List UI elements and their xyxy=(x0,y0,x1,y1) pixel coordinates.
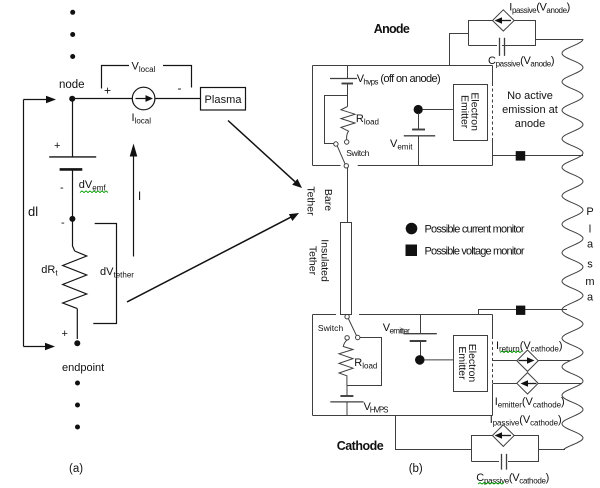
wire box to I_return diamond xyxy=(493,360,517,362)
svg-text:Ipassive(Vcathode): Ipassive(Vcathode) xyxy=(490,414,562,428)
svg-text:endpoint: endpoint xyxy=(62,362,104,374)
switch right contact xyxy=(345,140,349,144)
plasma wavy line xyxy=(562,39,583,450)
svg-text:-: - xyxy=(60,182,64,194)
Electron Emitter box cathode xyxy=(454,336,488,392)
cathode box right edge dashed xyxy=(492,336,494,384)
cathode box right edge solid bottom xyxy=(492,384,494,416)
resistor dR_t zigzag xyxy=(63,251,87,309)
cathode voltage monitor square xyxy=(516,306,525,315)
dl bottom arrow xyxy=(24,346,48,348)
svg-text:+: + xyxy=(104,84,111,98)
V_hvps battery stem xyxy=(347,66,349,79)
svg-text:(b): (b) xyxy=(409,463,423,475)
C_passive capacitor anode xyxy=(500,38,505,56)
svg-text:Insulated: Insulated xyxy=(319,239,331,282)
right bypass branch xyxy=(347,338,382,386)
tether bottom contact xyxy=(345,315,349,319)
legend voltage monitor square xyxy=(406,245,418,257)
I_return diamond xyxy=(517,350,538,371)
svg-text:+: + xyxy=(54,140,60,152)
squiggle under passive xyxy=(478,483,504,485)
anode box bottom edge right xyxy=(358,165,493,167)
battery dV_emf long plate xyxy=(49,156,96,158)
node2 junction dot xyxy=(69,216,75,222)
wire node2 to resistor xyxy=(73,221,75,251)
wire I_return diamond to plasma xyxy=(538,360,570,362)
V_HVPS stem to bottom xyxy=(346,402,348,416)
svg-text:Cathode: Cathode xyxy=(337,439,384,453)
cathode switch blade xyxy=(348,319,356,336)
cathode box top edge right xyxy=(359,314,493,316)
svg-text:VHVPS: VHVPS xyxy=(364,401,389,415)
V_emitter stem to dot xyxy=(420,341,422,356)
dl top arrow xyxy=(24,99,49,101)
svg-text:(a): (a) xyxy=(69,463,83,475)
loop to plasma wire xyxy=(539,449,566,451)
bare tether wire xyxy=(347,168,349,223)
V_emit short plate xyxy=(412,129,425,131)
node A junction dot xyxy=(69,96,75,102)
Plasma box xyxy=(201,88,246,111)
svg-text:Iemitter(Vcathode): Iemitter(Vcathode) xyxy=(495,396,565,410)
switch pole contact xyxy=(344,164,348,168)
svg-text:Tether: Tether xyxy=(305,186,317,216)
dots above node xyxy=(70,10,75,15)
battery dV_emf short plate xyxy=(60,168,83,171)
anode box right edge solid top xyxy=(492,66,494,84)
wire I_emitter diamond to plasma xyxy=(538,383,582,385)
svg-text:Vemit: Vemit xyxy=(390,138,413,152)
spellcheck squiggle under dV_emf xyxy=(80,191,108,193)
V_emitter long plate xyxy=(404,333,437,335)
wire node down to battery xyxy=(72,100,74,157)
svg-text:a: a xyxy=(587,239,594,251)
Electron Emitter box anode xyxy=(454,85,488,141)
riser from cathode box bottom xyxy=(396,416,472,450)
wire resistor to endpoint xyxy=(76,309,78,339)
svg-text:Possible current monitor: Possible current monitor xyxy=(425,224,525,236)
svg-text:Emitter: Emitter xyxy=(456,346,468,380)
loop to plasma wire xyxy=(536,39,584,41)
V_local bracket xyxy=(102,66,130,89)
anode box right edge dashed xyxy=(492,83,494,141)
V_HVPS short plate xyxy=(340,395,353,397)
svg-text:Switch: Switch xyxy=(346,148,369,158)
legend current monitor dot xyxy=(406,223,418,235)
anode voltage monitor square xyxy=(516,151,526,161)
V_emitter short plate xyxy=(410,340,427,342)
loop rectangle xyxy=(469,21,536,46)
stem battery to tee xyxy=(347,84,349,107)
wire current source to Plasma xyxy=(155,98,201,100)
cathode monitor wire riser xyxy=(479,310,568,315)
svg-text:l: l xyxy=(589,224,591,236)
cathode box right edge solid top xyxy=(492,315,494,337)
squiggle under return xyxy=(500,351,522,353)
svg-text:Plasma: Plasma xyxy=(205,94,243,106)
junction to battery stem xyxy=(346,386,348,397)
V_hvps long plate xyxy=(330,78,357,80)
svg-text:+: + xyxy=(62,328,68,340)
svg-text:Rload: Rload xyxy=(354,357,377,371)
left bypass branch xyxy=(325,96,348,144)
cathode box bottom edge xyxy=(313,415,493,417)
switch left contact xyxy=(345,336,349,340)
anode box top edge xyxy=(313,65,493,67)
switch blade xyxy=(337,146,345,164)
endpoint junction dot xyxy=(74,340,80,346)
svg-text:P: P xyxy=(586,206,593,218)
arrow tether circuit to insulated tether xyxy=(127,217,291,302)
V_emit stem to bottom xyxy=(418,136,420,166)
svg-text:node: node xyxy=(59,79,85,91)
R_load resistor cathode xyxy=(339,340,353,385)
arrow plasma to bare tether xyxy=(228,121,295,182)
wire node to current source xyxy=(73,98,133,100)
anode box left edge xyxy=(312,66,314,166)
anode box bottom edge left xyxy=(313,165,341,167)
anode box right edge solid bottom xyxy=(492,141,494,166)
svg-text:Cpassive(Vanode): Cpassive(Vanode) xyxy=(488,55,555,69)
svg-text:Ilocal: Ilocal xyxy=(132,112,152,126)
switch right contact xyxy=(356,335,360,339)
monitor dot anode xyxy=(414,105,423,114)
svg-text:Emitter: Emitter xyxy=(459,95,471,129)
svg-text:anode: anode xyxy=(515,118,546,130)
svg-text:Tether: Tether xyxy=(307,246,319,276)
I_passive diamond anode xyxy=(493,10,515,31)
V_emit stem xyxy=(418,113,420,130)
svg-text:Ipassive(Vanode): Ipassive(Vanode) xyxy=(509,2,570,16)
V_emitter stem top xyxy=(420,315,422,334)
dl bracket line xyxy=(23,100,25,347)
svg-text:Possible voltage monitor: Possible voltage monitor xyxy=(425,245,525,257)
svg-text:emission at: emission at xyxy=(502,104,558,116)
insulated tether rect xyxy=(341,223,352,315)
anode monitor wire xyxy=(493,155,584,157)
cathode box top edge left xyxy=(313,314,337,316)
wire battery to node2 xyxy=(72,169,74,219)
svg-text:dl: dl xyxy=(28,204,38,219)
svg-text:Anode: Anode xyxy=(374,22,410,36)
wire dot to emitter box xyxy=(423,109,454,111)
I_emitter diamond xyxy=(517,373,538,394)
svg-text:-: - xyxy=(61,217,65,229)
dots below endpoint xyxy=(75,381,80,386)
I_passive diamond cathode xyxy=(492,425,514,447)
V_emit long plate xyxy=(404,135,435,137)
cathode box left edge xyxy=(312,315,314,416)
monitor dot cathode xyxy=(415,355,425,365)
svg-text:dRt: dRt xyxy=(41,264,58,278)
svg-text:Switch: Switch xyxy=(318,323,344,333)
svg-text:-: - xyxy=(178,81,182,95)
current source I_local circle xyxy=(132,87,155,110)
C_passive capacitor cathode xyxy=(502,454,507,470)
V_HVPS long plate xyxy=(330,401,363,403)
svg-text:dVemf: dVemf xyxy=(79,179,107,193)
svg-text:I: I xyxy=(138,191,141,203)
switch left contact xyxy=(334,142,338,146)
svg-text:Rload: Rload xyxy=(356,113,379,127)
svg-text:Bare: Bare xyxy=(322,189,334,211)
svg-text:Vlocal: Vlocal xyxy=(132,61,156,75)
wire dot to emitter box xyxy=(424,359,454,361)
riser from anode box xyxy=(450,34,469,66)
svg-text:s: s xyxy=(587,259,593,271)
V_hvps short plate xyxy=(342,83,354,85)
svg-text:a: a xyxy=(587,292,594,304)
wire box to I_emitter diamond xyxy=(493,383,517,385)
loop rectangle xyxy=(472,436,539,462)
svg-text:dVtether: dVtether xyxy=(100,266,134,280)
svg-text:Vhvps (off on anode): Vhvps (off on anode) xyxy=(357,73,441,87)
current I arrow xyxy=(133,153,135,257)
R_load resistor anode xyxy=(341,107,355,140)
svg-text:m: m xyxy=(585,276,594,288)
Plasma vertical letters xyxy=(585,206,594,303)
dV_tether bracket xyxy=(93,224,116,324)
svg-text:No active: No active xyxy=(507,90,553,102)
